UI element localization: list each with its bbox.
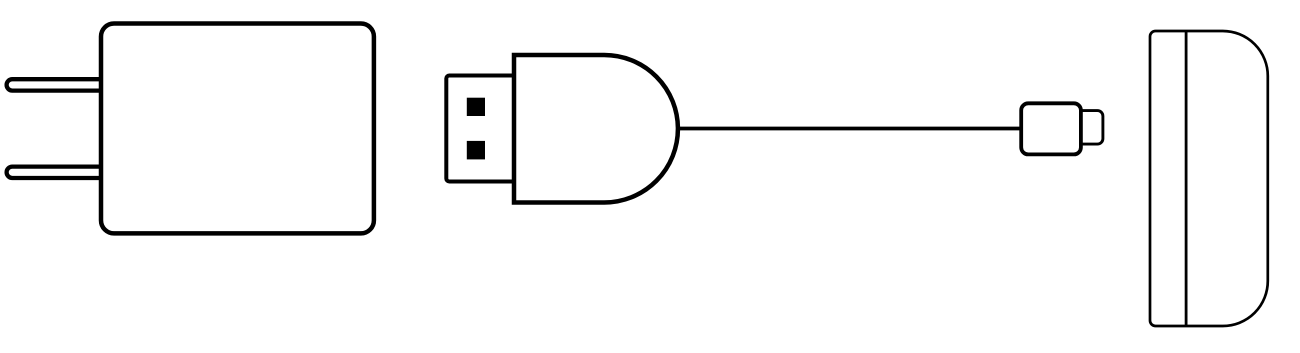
micro-USB plug body: [1021, 103, 1081, 154]
device inner panel line: [1185, 31, 1188, 326]
lower prong of wall adapter: [7, 167, 105, 178]
USB-A contact square bottom: [467, 141, 485, 160]
cable: [660, 127, 1030, 131]
device (side view): [1150, 31, 1268, 326]
upper prong of wall adapter: [7, 79, 105, 90]
USB-A metal shell: [446, 76, 515, 182]
USB-A connector body: [514, 55, 678, 203]
USB-A contact square top: [467, 98, 485, 116]
micro-USB plug tip: [1070, 111, 1103, 145]
wall adapter body: [101, 24, 374, 234]
